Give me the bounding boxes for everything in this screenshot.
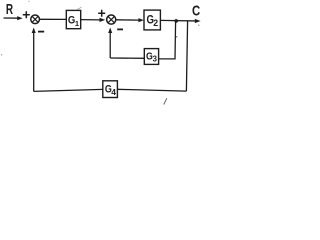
scan speck: dot at top margin bbox=[28, 1, 29, 2]
scan speck: slash below bottom wire bbox=[164, 98, 167, 104]
svg-text:R: R bbox=[6, 2, 14, 18]
wire G1 to S2 bbox=[81, 19, 100, 21]
arrowhead into block G2 bbox=[138, 18, 144, 22]
node dot takeoff point for G3 feedback bbox=[174, 19, 178, 23]
wire G4 to bottom left corner bbox=[34, 89, 103, 91]
summing junction S1 (circle with X) bbox=[31, 15, 40, 24]
arrowhead up into S1 bbox=[32, 28, 36, 34]
block G1 bbox=[66, 10, 80, 28]
wire takeoff down and left into G3 bbox=[159, 21, 176, 59]
wire R input arrow bbox=[4, 17, 21, 19]
output label C bbox=[192, 3, 200, 19]
plus sign at summing junction S1 bbox=[23, 11, 30, 18]
svg-text:3: 3 bbox=[153, 55, 158, 64]
svg-text:C: C bbox=[192, 3, 200, 19]
wire feedback up into S1 bbox=[33, 31, 35, 91]
scan speck: nick on G3 takeoff wire bbox=[176, 36, 178, 38]
scan speck: dot at left margin bbox=[1, 54, 2, 55]
svg-text:1: 1 bbox=[75, 19, 79, 28]
block G2 bbox=[144, 10, 160, 30]
scan speck: dot below output arrow bbox=[198, 25, 199, 26]
wire S1 to G1 bbox=[40, 18, 67, 20]
summing junction S2 (circle with X) bbox=[107, 15, 116, 24]
wire takeoff for outer G4 feedback down right side bbox=[186, 21, 187, 91]
wire feedback up into S2 bbox=[109, 31, 111, 58]
svg-text:4: 4 bbox=[111, 87, 116, 97]
minus sign below summing junction S1 bbox=[38, 31, 44, 33]
arrowhead into summing junction S1 bbox=[17, 16, 23, 20]
arrowhead at output C bbox=[195, 19, 201, 23]
minus sign below summing junction S2 bbox=[117, 28, 123, 30]
arrowhead up into S2 bbox=[108, 28, 112, 34]
arrowhead into summing junction S2 bbox=[100, 18, 106, 22]
plus sign at summing junction S2 bbox=[98, 10, 105, 17]
block G3 bbox=[144, 49, 158, 65]
wire bottom right to G4 bbox=[117, 89, 186, 91]
wire G2 to output C bbox=[160, 19, 195, 22]
svg-text:2: 2 bbox=[153, 18, 158, 28]
wire S2 to G2 bbox=[116, 19, 139, 21]
scan speck: diagonal tick above G1 bbox=[77, 7, 82, 10]
wire G3 to below S2 bbox=[110, 57, 144, 59]
input label R bbox=[6, 2, 14, 18]
block G4 bbox=[103, 81, 118, 98]
